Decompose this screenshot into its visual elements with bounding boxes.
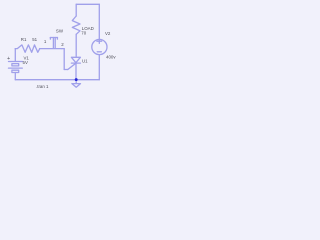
wire LOAD branch top lead (75, 4, 77, 16)
svg-text:400v: 400v (106, 54, 116, 59)
node junction dot (75, 78, 78, 81)
wire LOAD to SCR anode (75, 34, 77, 57)
svg-text:.tran 1: .tran 1 (36, 84, 49, 89)
wire battery bottom lead (14, 73, 16, 80)
wire SCR cathode to junction (75, 63, 77, 80)
svg-text:R1: R1 (21, 37, 27, 42)
wire V2 bottom lead (98, 55, 100, 80)
svg-text:U1: U1 (82, 59, 88, 64)
wire battery top lead (14, 49, 16, 62)
resistor LOAD (72, 16, 80, 34)
svg-text:V2: V2 (105, 31, 111, 36)
switch SW (50, 37, 57, 39)
wire V2 branch top (98, 4, 100, 39)
wire top rail (76, 3, 99, 5)
svg-text:70: 70 (81, 30, 86, 35)
ground (75, 80, 77, 84)
svg-text:5V: 5V (23, 60, 28, 65)
thyristor U1 (71, 57, 80, 62)
background (0, 0, 120, 93)
svg-text:51: 51 (32, 37, 37, 42)
wire gate stub (64, 69, 68, 71)
svg-text:+: + (7, 56, 10, 62)
wire bottom rail (15, 79, 99, 81)
wire R1 to node2 corner (40, 48, 62, 50)
wire switch to corner (62, 48, 65, 50)
voltage source V2 (92, 39, 107, 54)
resistor R1 (15, 45, 40, 52)
battery V1 (9, 61, 23, 63)
svg-text:SW: SW (56, 29, 64, 34)
wire node 2 vertical (63, 49, 65, 70)
